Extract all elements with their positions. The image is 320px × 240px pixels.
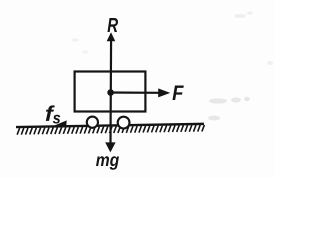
hatch strokes xyxy=(17,125,204,135)
wire: vertical line for R and mg arrows xyxy=(109,37,112,145)
label s glyph s xyxy=(53,115,60,124)
label mg glyph m xyxy=(96,156,109,166)
ground (hatched surface) xyxy=(16,118,205,135)
wire: F arrow shaft xyxy=(111,91,160,94)
faint scan smudges (background noise) xyxy=(81,76,141,106)
label f glyph f xyxy=(46,105,55,121)
label F glyph F xyxy=(173,85,184,100)
arrowhead mg (down) xyxy=(105,142,115,152)
arrowhead R (up) xyxy=(107,32,116,41)
node: center of mass dot xyxy=(107,89,114,96)
label mg glyph g xyxy=(110,156,119,169)
friction arrowhead f_s xyxy=(54,120,67,127)
label R glyph R xyxy=(108,18,118,32)
wheel left xyxy=(87,117,98,128)
arrowhead F (right) xyxy=(158,88,170,97)
box (cart body) xyxy=(75,72,146,112)
wheel right xyxy=(118,117,130,129)
wire: ground surface line xyxy=(16,124,204,127)
